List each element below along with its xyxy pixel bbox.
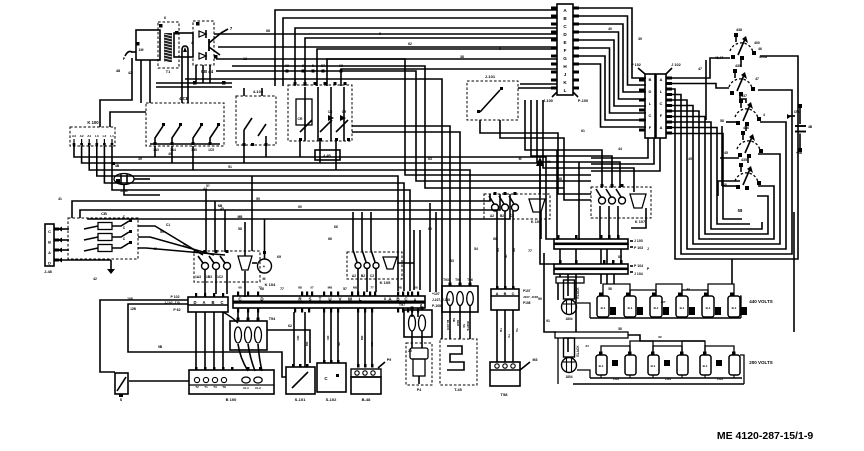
svg-text:53: 53	[450, 259, 454, 263]
svg-text:38: 38	[460, 55, 464, 59]
svg-text:J 103: J 103	[634, 239, 643, 243]
svg-text:C: C	[512, 292, 515, 296]
svg-text:L3: L3	[95, 134, 99, 138]
svg-text:A: A	[660, 77, 663, 82]
svg-text:448: 448	[721, 183, 727, 187]
svg-text:61: 61	[581, 129, 585, 133]
svg-text:MB: MB	[328, 286, 333, 290]
svg-text:P: P	[123, 57, 126, 61]
svg-text:1B5: 1B5	[191, 148, 197, 152]
svg-text:200 VOLTS: 200 VOLTS	[749, 360, 772, 365]
svg-text:L: L	[564, 88, 567, 93]
svg-text:A: A	[660, 125, 663, 130]
svg-text:P 102: P 102	[631, 63, 641, 67]
svg-text:B-1: B-1	[680, 306, 685, 310]
svg-text:D: D	[193, 300, 196, 305]
svg-text:57: 57	[321, 64, 325, 68]
svg-text:66: 66	[328, 237, 332, 241]
svg-text:68: 68	[266, 29, 270, 33]
svg-text:68: 68	[493, 237, 497, 241]
svg-text:T93: T93	[443, 278, 449, 282]
svg-text:ME 4120-287-15/1-9: ME 4120-287-15/1-9	[717, 430, 813, 442]
svg-text:J: J	[564, 72, 567, 77]
svg-text:A: A	[48, 250, 51, 255]
svg-text:J-48: J-48	[44, 270, 52, 274]
svg-text:P107: P107	[523, 289, 531, 293]
svg-text:57: 57	[310, 286, 314, 290]
svg-text:45: 45	[688, 157, 692, 161]
svg-text:91: 91	[546, 319, 550, 323]
svg-text:5: 5	[312, 64, 314, 68]
svg-text:45: 45	[220, 207, 224, 211]
svg-text:C2: C2	[370, 274, 374, 278]
svg-text:68: 68	[339, 64, 343, 68]
svg-text:B2: B2	[500, 214, 504, 218]
svg-text:57: 57	[343, 287, 347, 291]
svg-text:B: B	[48, 240, 51, 245]
svg-text:12B: 12B	[130, 307, 137, 311]
svg-text:62: 62	[658, 335, 662, 339]
svg-text:L2: L2	[103, 134, 107, 138]
svg-text:59: 59	[160, 230, 164, 234]
svg-text:60: 60	[183, 244, 187, 248]
svg-text:1C5: 1C5	[208, 148, 214, 152]
svg-text:438: 438	[736, 28, 742, 32]
svg-text:1A5: 1A5	[153, 148, 159, 152]
svg-text:440 VOLTS: 440 VOLTS	[749, 299, 772, 304]
svg-text:41: 41	[58, 197, 62, 201]
svg-text:+5B: +5B	[796, 151, 803, 155]
svg-text:40: 40	[608, 27, 612, 31]
svg-text:1C2: 1C2	[217, 275, 223, 279]
svg-text:62: 62	[288, 324, 292, 328]
svg-text:68: 68	[238, 286, 242, 290]
svg-text:80: 80	[428, 227, 432, 231]
svg-text:9: 9	[499, 47, 501, 51]
svg-text:G: G	[563, 56, 567, 61]
svg-text:B-1: B-1	[601, 306, 606, 310]
svg-text:A2: A2	[80, 134, 84, 138]
svg-text:A1M: A1M	[120, 189, 127, 193]
svg-text:MO: MO	[370, 342, 374, 347]
svg-text:B 100: B 100	[226, 397, 237, 402]
svg-text:108: 108	[127, 297, 133, 301]
svg-text:4: 4	[763, 113, 765, 117]
svg-text:46: 46	[153, 247, 157, 251]
svg-text:BLACK: BLACK	[576, 345, 580, 357]
svg-text:46,47: 46,47	[715, 56, 724, 60]
svg-text:62: 62	[408, 42, 412, 46]
svg-text:B-1: B-1	[599, 364, 604, 368]
svg-text:B2: B2	[361, 274, 365, 278]
svg-text:B-1: B-1	[654, 306, 659, 310]
svg-text:J 102: J 102	[671, 63, 681, 67]
svg-text:J: J	[647, 247, 649, 251]
svg-text:400: 400	[754, 41, 760, 45]
svg-text:CPL: CPL	[794, 110, 800, 114]
svg-text:L1: L1	[110, 134, 114, 138]
svg-text:44: 44	[618, 147, 622, 151]
svg-text:J107, J108: J107, J108	[523, 295, 538, 299]
svg-text:20: 20	[408, 349, 412, 353]
svg-text:S: S	[308, 297, 311, 302]
svg-text:44: 44	[686, 287, 690, 291]
svg-text:P 104: P 104	[634, 264, 643, 268]
svg-text:42: 42	[93, 277, 97, 281]
svg-text:4 4B: 4 4B	[323, 154, 331, 158]
svg-text:B-1: B-1	[732, 306, 737, 310]
svg-text:C1: C1	[166, 223, 170, 227]
svg-text:A: A	[496, 292, 499, 296]
svg-text:C: C	[660, 101, 663, 106]
svg-text:46: 46	[758, 47, 762, 51]
svg-text:P-100: P-100	[578, 99, 588, 103]
svg-text:B-48: B-48	[362, 397, 371, 402]
svg-text:51: 51	[228, 165, 232, 169]
svg-text:T96: T96	[467, 278, 473, 282]
svg-text:42: 42	[128, 71, 132, 75]
svg-text:47: 47	[755, 77, 759, 81]
svg-text:BLACK: BLACK	[446, 320, 450, 331]
svg-text:P 102: P 102	[170, 295, 179, 299]
svg-text:B-1: B-1	[628, 306, 633, 310]
svg-text:K 107: K 107	[635, 220, 645, 224]
svg-text:A1: A1	[87, 134, 91, 138]
svg-text:CB: CB	[101, 211, 107, 216]
svg-text:T1: T1	[166, 70, 170, 74]
svg-text:K 106: K 106	[531, 220, 541, 224]
svg-text:58: 58	[720, 119, 724, 123]
svg-text:MB: MB	[305, 342, 309, 347]
svg-text:M3: M3	[533, 358, 538, 362]
svg-text:T95: T95	[455, 278, 461, 282]
svg-text:77: 77	[370, 286, 374, 290]
svg-text:S-102: S-102	[326, 397, 337, 402]
svg-text:P4: P4	[417, 388, 421, 392]
svg-text:C: C	[220, 300, 223, 305]
svg-text:4B: 4B	[808, 125, 813, 129]
svg-text:1M: 1M	[139, 48, 144, 52]
svg-text:J-101: J-101	[485, 74, 496, 79]
svg-text:8: 8	[379, 32, 381, 36]
svg-text:90: 90	[538, 297, 542, 301]
svg-text:B-1: B-1	[703, 364, 708, 368]
svg-text:S-101: S-101	[295, 397, 306, 402]
svg-text:K 104: K 104	[265, 282, 276, 287]
svg-text:1A3: 1A3	[195, 275, 201, 279]
svg-text:J 104: J 104	[634, 272, 643, 276]
svg-text:A: A	[202, 300, 205, 305]
svg-text:77: 77	[528, 249, 532, 253]
svg-text:68: 68	[260, 287, 264, 291]
svg-text:T: T	[319, 297, 322, 302]
svg-text:D: D	[48, 261, 51, 266]
svg-text:44: 44	[203, 187, 207, 191]
svg-text:58: 58	[558, 177, 562, 181]
svg-text:BLACK: BLACK	[576, 287, 580, 299]
svg-text:L: L	[359, 297, 362, 302]
svg-text:1A4: 1A4	[170, 148, 176, 152]
svg-text:C: C	[649, 113, 652, 118]
svg-text:77: 77	[280, 287, 284, 291]
svg-text:P 62: P 62	[173, 308, 180, 312]
svg-text:MC: MC	[326, 336, 330, 341]
svg-text:+107: +107	[432, 292, 440, 296]
svg-text:58: 58	[608, 287, 612, 291]
svg-text:47: 47	[698, 67, 702, 71]
svg-text:A2: A2	[352, 274, 356, 278]
svg-text:D: D	[649, 89, 652, 94]
svg-text:12: 12	[243, 57, 247, 61]
svg-text:1B3: 1B3	[206, 275, 212, 279]
svg-text:T-45: T-45	[454, 388, 462, 392]
svg-text:38: 38	[285, 64, 289, 68]
svg-text:CL1: CL1	[243, 386, 249, 390]
svg-text:J-100: J-100	[543, 99, 553, 103]
svg-text:P 103: P 103	[634, 246, 643, 250]
svg-text:B: B	[649, 77, 652, 82]
svg-text:400A: 400A	[759, 55, 768, 59]
svg-text:39: 39	[638, 37, 642, 41]
svg-text:M: M	[263, 277, 266, 281]
svg-text:A3: A3	[72, 134, 76, 138]
svg-text:58: 58	[238, 227, 242, 231]
svg-text:CB 44: CB 44	[201, 69, 214, 74]
svg-text:58: 58	[337, 342, 341, 346]
svg-text:U: U	[328, 297, 331, 302]
svg-text:B: B	[504, 292, 507, 296]
svg-text:59: 59	[256, 197, 260, 201]
svg-text:E: E	[563, 40, 566, 45]
svg-text:B-1: B-1	[706, 306, 711, 310]
svg-text:82: 82	[618, 255, 622, 259]
svg-text:49: 49	[138, 157, 142, 161]
svg-text:4B: 4B	[115, 164, 120, 168]
svg-text:1804: 1804	[565, 375, 572, 379]
svg-text:9: 9	[302, 64, 304, 68]
svg-text:4 CB: 4 CB	[179, 96, 189, 101]
svg-text:K 105: K 105	[380, 280, 391, 285]
svg-text:B-1: B-1	[651, 364, 656, 368]
svg-text:66: 66	[334, 225, 338, 229]
svg-text:T97: T97	[399, 303, 405, 307]
svg-text:K 100: K 100	[87, 120, 99, 125]
svg-text:CR: CR	[298, 117, 303, 121]
svg-text:P9: P9	[387, 358, 391, 362]
svg-text:C: C	[48, 229, 51, 234]
svg-text:A2: A2	[490, 214, 494, 218]
svg-text:69: 69	[277, 255, 281, 259]
svg-text:T94: T94	[269, 317, 276, 321]
svg-text:439: 439	[735, 64, 741, 68]
svg-text:58: 58	[618, 327, 622, 331]
svg-text:58: 58	[738, 208, 743, 213]
svg-text:+07: +07	[660, 300, 665, 304]
svg-text:MB: MB	[360, 336, 364, 341]
svg-text:MO: MO	[296, 336, 300, 341]
svg-text:+: +	[263, 264, 266, 269]
svg-text:34: 34	[585, 344, 589, 348]
svg-text:437: 437	[741, 94, 747, 98]
svg-text:V: V	[338, 297, 341, 302]
svg-text:F: F	[564, 48, 567, 53]
svg-text:CL2: CL2	[255, 386, 261, 390]
svg-text:54: 54	[474, 247, 478, 251]
svg-text:63: 63	[428, 157, 432, 161]
svg-text:B: B	[211, 300, 214, 305]
svg-text:9B: 9B	[158, 345, 163, 349]
svg-text:6: 6	[164, 16, 166, 20]
svg-text:P108: P108	[523, 301, 531, 305]
svg-text:T98: T98	[501, 392, 509, 397]
svg-text:60: 60	[298, 205, 302, 209]
svg-text:M: M	[519, 157, 522, 161]
svg-text:48: 48	[116, 69, 120, 73]
svg-text:8: 8	[384, 297, 386, 301]
svg-text:1804: 1804	[565, 317, 572, 321]
svg-text:45: 45	[724, 151, 728, 155]
svg-text:P-108: P-108	[432, 304, 441, 308]
svg-text:435: 435	[741, 158, 747, 162]
svg-text:58: 58	[414, 286, 418, 290]
